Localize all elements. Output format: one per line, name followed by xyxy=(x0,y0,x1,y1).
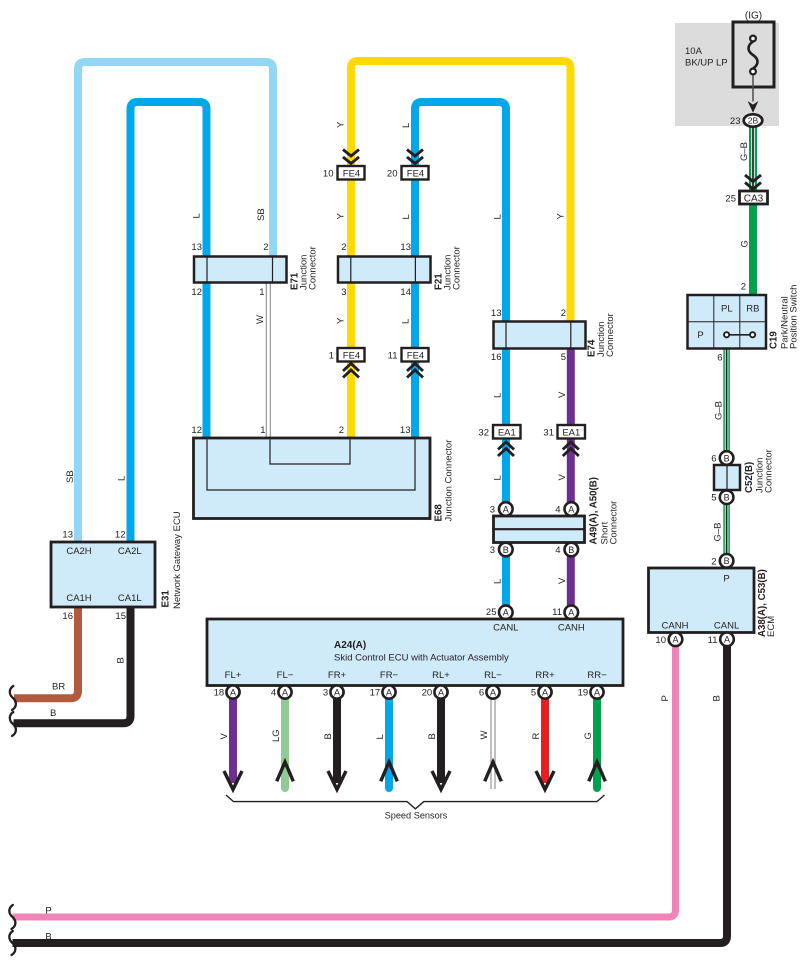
svg-text:A: A xyxy=(503,504,509,514)
svg-text:A: A xyxy=(230,687,236,697)
svg-text:6: 6 xyxy=(479,688,484,699)
svg-text:Connector: Connector xyxy=(605,313,616,357)
svg-text:A: A xyxy=(334,687,340,697)
svg-text:BK/UP LP: BK/UP LP xyxy=(685,58,728,69)
svg-text:5: 5 xyxy=(531,688,536,699)
svg-text:G–B: G–B xyxy=(739,142,750,161)
svg-text:2: 2 xyxy=(741,282,746,293)
svg-text:C52(B): C52(B) xyxy=(744,462,755,493)
svg-text:13: 13 xyxy=(400,425,411,436)
svg-text:16: 16 xyxy=(62,611,73,622)
svg-text:G: G xyxy=(740,240,751,247)
svg-text:RL−: RL− xyxy=(484,670,502,681)
svg-text:31: 31 xyxy=(543,428,554,439)
svg-text:L: L xyxy=(117,476,128,481)
svg-text:CA1L: CA1L xyxy=(118,593,142,604)
svg-text:11: 11 xyxy=(552,607,562,618)
svg-text:L: L xyxy=(493,393,504,398)
svg-text:B: B xyxy=(45,932,51,943)
svg-text:12: 12 xyxy=(191,287,202,298)
svg-text:L: L xyxy=(493,475,504,480)
svg-text:A49(A), A50(B): A49(A), A50(B) xyxy=(589,477,600,544)
svg-text:CA3: CA3 xyxy=(744,193,764,204)
svg-text:EA1: EA1 xyxy=(562,428,580,439)
svg-text:CA1H: CA1H xyxy=(66,593,91,604)
svg-text:A: A xyxy=(503,608,509,618)
svg-text:E31: E31 xyxy=(161,590,172,608)
svg-text:16: 16 xyxy=(491,352,502,363)
svg-text:A: A xyxy=(568,504,574,514)
svg-text:Y: Y xyxy=(336,213,347,220)
svg-text:13: 13 xyxy=(400,242,411,253)
svg-text:ECM: ECM xyxy=(766,616,777,637)
svg-text:6: 6 xyxy=(711,454,716,465)
svg-text:25: 25 xyxy=(486,607,497,618)
svg-text:11: 11 xyxy=(388,351,398,362)
svg-text:A: A xyxy=(386,687,392,697)
svg-text:P: P xyxy=(45,906,51,917)
svg-text:B: B xyxy=(50,708,56,719)
svg-text:12: 12 xyxy=(115,530,126,541)
svg-text:2: 2 xyxy=(341,242,346,253)
svg-text:A: A xyxy=(490,687,496,697)
svg-text:CA2L: CA2L xyxy=(118,546,142,557)
svg-text:SB: SB xyxy=(65,470,76,483)
svg-text:4: 4 xyxy=(555,505,560,516)
svg-text:13: 13 xyxy=(191,242,202,253)
svg-text:V: V xyxy=(557,474,568,481)
svg-text:A24(A): A24(A) xyxy=(334,640,366,651)
svg-text:17: 17 xyxy=(370,688,381,699)
svg-text:FL−: FL− xyxy=(277,670,294,681)
svg-text:SB: SB xyxy=(256,208,267,221)
svg-text:2: 2 xyxy=(711,556,716,567)
svg-text:CANH: CANH xyxy=(558,623,585,634)
svg-text:Network Gateway ECU: Network Gateway ECU xyxy=(172,511,183,609)
svg-text:G–B: G–B xyxy=(713,522,724,541)
svg-text:2: 2 xyxy=(561,308,566,319)
svg-text:B: B xyxy=(724,556,730,566)
svg-text:RR−: RR− xyxy=(587,670,607,681)
svg-text:B: B xyxy=(712,695,723,701)
svg-text:CANL: CANL xyxy=(493,623,518,634)
svg-text:CA2H: CA2H xyxy=(66,546,91,557)
svg-text:Y: Y xyxy=(336,121,347,128)
svg-text:V: V xyxy=(557,577,568,584)
svg-text:B: B xyxy=(724,453,730,463)
svg-text:Connector: Connector xyxy=(452,246,463,290)
svg-text:FR+: FR+ xyxy=(328,670,347,681)
svg-text:A: A xyxy=(568,608,574,618)
svg-text:LG: LG xyxy=(271,729,282,742)
svg-text:13: 13 xyxy=(491,308,502,319)
svg-text:13: 13 xyxy=(62,530,73,541)
svg-text:R: R xyxy=(531,733,542,740)
svg-text:L: L xyxy=(401,319,412,324)
svg-text:3: 3 xyxy=(323,688,328,699)
svg-text:C19: C19 xyxy=(769,331,780,349)
svg-text:Connector: Connector xyxy=(609,501,620,545)
svg-text:10: 10 xyxy=(655,635,666,646)
svg-text:11: 11 xyxy=(708,635,718,646)
svg-text:L: L xyxy=(375,734,386,739)
svg-text:L: L xyxy=(401,123,412,128)
svg-text:FR−: FR− xyxy=(380,670,399,681)
svg-text:(IG): (IG) xyxy=(745,11,762,22)
svg-text:W: W xyxy=(479,731,490,740)
svg-text:2: 2 xyxy=(339,425,344,436)
svg-text:P: P xyxy=(660,695,671,701)
svg-text:P: P xyxy=(723,574,729,585)
svg-text:EA1: EA1 xyxy=(498,428,516,439)
svg-text:A: A xyxy=(724,635,730,645)
svg-text:A: A xyxy=(282,687,288,697)
svg-text:2: 2 xyxy=(263,242,268,253)
svg-text:23: 23 xyxy=(730,116,741,127)
svg-text:5: 5 xyxy=(711,493,716,504)
svg-text:25: 25 xyxy=(725,194,736,205)
svg-text:10: 10 xyxy=(323,169,334,180)
svg-text:3: 3 xyxy=(341,287,346,298)
svg-text:G: G xyxy=(583,732,594,739)
svg-text:V: V xyxy=(557,391,568,398)
svg-text:14: 14 xyxy=(400,287,411,298)
svg-text:6: 6 xyxy=(717,353,722,364)
svg-text:20: 20 xyxy=(422,688,433,699)
svg-text:15: 15 xyxy=(115,611,126,622)
svg-text:L: L xyxy=(493,214,504,219)
svg-text:32: 32 xyxy=(478,428,489,439)
svg-text:B: B xyxy=(427,733,438,739)
svg-text:L: L xyxy=(401,214,412,219)
svg-text:W: W xyxy=(255,315,266,324)
svg-text:RL+: RL+ xyxy=(432,670,450,681)
svg-text:3: 3 xyxy=(490,505,495,516)
svg-text:BR: BR xyxy=(52,682,65,693)
svg-text:3: 3 xyxy=(490,545,495,556)
svg-text:PL: PL xyxy=(721,304,733,315)
svg-text:B: B xyxy=(116,657,127,663)
svg-text:A: A xyxy=(594,687,600,697)
svg-text:B: B xyxy=(323,733,334,739)
svg-text:G–B: G–B xyxy=(714,401,725,420)
svg-text:A: A xyxy=(672,635,678,645)
svg-text:4: 4 xyxy=(555,545,560,556)
svg-text:L: L xyxy=(493,579,504,584)
svg-text:12: 12 xyxy=(191,425,202,436)
svg-text:V: V xyxy=(219,733,230,740)
svg-text:CANH: CANH xyxy=(662,621,689,632)
svg-text:2B: 2B xyxy=(748,116,759,126)
svg-text:A: A xyxy=(542,687,548,697)
svg-text:1: 1 xyxy=(259,287,264,298)
svg-text:Junction Connector: Junction Connector xyxy=(444,440,455,522)
svg-text:18: 18 xyxy=(214,688,225,699)
svg-text:Y: Y xyxy=(556,213,567,220)
svg-text:B: B xyxy=(568,545,574,555)
svg-text:19: 19 xyxy=(578,688,589,699)
svg-text:FE4: FE4 xyxy=(407,169,424,180)
svg-text:Connector: Connector xyxy=(308,246,319,290)
svg-text:10A: 10A xyxy=(685,46,703,57)
svg-text:B: B xyxy=(724,493,730,503)
svg-text:5: 5 xyxy=(561,352,566,363)
svg-text:FE4: FE4 xyxy=(407,351,424,362)
svg-text:P: P xyxy=(697,330,703,341)
svg-text:Connector: Connector xyxy=(764,449,775,493)
svg-text:CANL: CANL xyxy=(714,621,739,632)
svg-text:4: 4 xyxy=(271,688,276,699)
svg-text:Skid Control ECU with Actuator: Skid Control ECU with Actuator Assembly xyxy=(334,653,509,664)
svg-text:L: L xyxy=(192,213,203,218)
svg-text:A: A xyxy=(438,687,444,697)
svg-text:B: B xyxy=(503,545,509,555)
svg-text:1: 1 xyxy=(329,351,334,362)
svg-text:Y: Y xyxy=(336,317,347,324)
svg-text:FE4: FE4 xyxy=(343,351,360,362)
svg-text:Speed Sensors: Speed Sensors xyxy=(385,811,448,821)
svg-text:FL+: FL+ xyxy=(225,670,242,681)
svg-text:RR+: RR+ xyxy=(535,670,555,681)
svg-text:1: 1 xyxy=(260,425,265,436)
svg-text:FE4: FE4 xyxy=(343,169,360,180)
svg-text:Position Switch: Position Switch xyxy=(789,285,800,349)
svg-text:20: 20 xyxy=(387,169,398,180)
svg-text:RB: RB xyxy=(746,304,759,315)
